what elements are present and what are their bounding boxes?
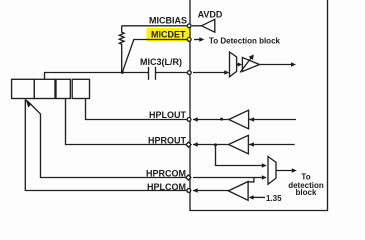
svg-text:AVDD: AVDD (198, 10, 223, 20)
svg-text:HPLOUT: HPLOUT (149, 110, 187, 120)
svg-text:To Detection block: To Detection block (209, 36, 281, 45)
svg-text:HPLCOM: HPLCOM (147, 182, 186, 192)
svg-text:HPROUT: HPROUT (148, 136, 187, 146)
svg-text:MIC3(L/R): MIC3(L/R) (140, 57, 182, 67)
svg-text:block: block (296, 188, 317, 197)
svg-text:MICBIAS: MICBIAS (149, 16, 187, 26)
svg-text:1.35: 1.35 (266, 194, 282, 203)
svg-text:MICDET: MICDET (151, 29, 186, 39)
svg-text:HPRCOM: HPRCOM (146, 169, 186, 179)
